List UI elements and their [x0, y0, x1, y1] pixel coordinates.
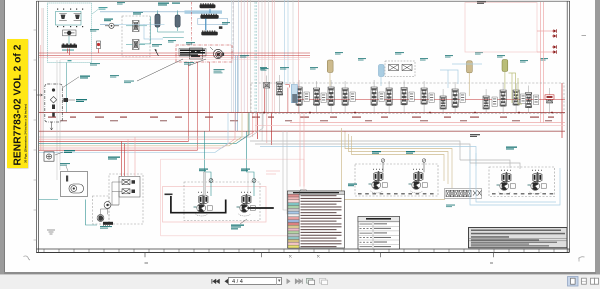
callout label L2: [117, 2, 125, 5]
sensor cylinder B3 (tan): [467, 61, 473, 96]
horn H1: [210, 47, 223, 59]
pale feeder wires to M1: [285, 0, 299, 113]
tan wire pair to fan box: [345, 132, 452, 189]
fan enclosure dashed box: [184, 182, 260, 221]
blue wire to right motors: [260, 147, 476, 167]
multicolour trunk bundle: [39, 128, 263, 152]
ground sym bottom-left: [47, 230, 55, 234]
connector P16: [526, 93, 532, 108]
label above capacitors: [158, 3, 180, 6]
connector P10: [421, 88, 427, 105]
red loop wires left-band: [265, 85, 290, 113]
grey feed right fan box: [460, 160, 520, 169]
band grey wire low: [250, 130, 565, 132]
switch S1 near band: [97, 41, 101, 49]
receptacle blocks in band: [304, 92, 539, 107]
callout label LD: [124, 81, 134, 84]
callout label L1: [90, 29, 99, 32]
callout label L5: [186, 42, 195, 45]
label above KS: [60, 163, 70, 171]
label above right fan box: [506, 147, 517, 150]
callout label L14: [358, 58, 366, 61]
wire colour legend table: [288, 191, 345, 248]
viewer toolbar: [0, 274, 600, 289]
callout label L12: [310, 67, 318, 70]
teal wire bottom-left: [39, 200, 97, 226]
light-blue bus bar: [185, 10, 223, 13]
fan enclosure outer box: [163, 187, 267, 223]
grey dash boundary x233: [232, 2, 234, 55]
label right of band: [470, 134, 480, 137]
relay K1: [59, 13, 67, 20]
wires in E5: [101, 182, 123, 214]
harness band dashed outline: [251, 83, 564, 114]
grey thick drop to FM1: [203, 172, 206, 196]
frame bottom x-marks: [289, 255, 320, 258]
pink riser wire (top-right): [537, 31, 552, 52]
callout label L17: [445, 55, 453, 58]
cab harness dashed box E5: [93, 174, 144, 224]
thick bus bar: [171, 196, 274, 213]
drawing frame right border: [567, 1, 569, 252]
connector P8: [386, 88, 392, 106]
next-page button (disabled): [287, 279, 290, 284]
svg-text:30 Pgs. (Dimension: 24 Inches: 30 Pgs. (Dimension: 24 Inches x 36 Inche…: [23, 104, 27, 163]
pin dots of E1: [57, 9, 83, 28]
callout label L18: [475, 52, 483, 55]
relay module dashed box E3: [385, 61, 415, 77]
svg-text:RENR7783-02 VOL 2 of 2: RENR7783-02 VOL 2 of 2: [13, 44, 24, 165]
viewer grey margin left: [0, 0, 5, 274]
page number combo box: [228, 277, 282, 286]
grommets above left fan box: [381, 159, 426, 173]
callout label L11: [110, 75, 119, 78]
connector P14: [500, 90, 506, 107]
terminal strip TS1: [62, 44, 78, 48]
connector P3: [296, 87, 302, 106]
light-blue supply wire run: [100, 12, 185, 24]
fan motor FM3: [369, 169, 388, 193]
callout label L20: [520, 60, 528, 63]
line definitions table: [358, 217, 400, 250]
callout label L19: [497, 55, 505, 58]
red drop wires from TS1: [68, 49, 70, 56]
last-page button (disabled): [295, 279, 302, 284]
callout label L21: [540, 58, 548, 61]
label under TS1: [62, 50, 74, 62]
callout label L7: [240, 55, 249, 58]
diode group D1-D4: [552, 29, 557, 54]
steel-blue dropper pair: [236, 55, 238, 131]
title block: [469, 228, 568, 248]
band long red wire: [39, 112, 565, 114]
connector P15: [513, 90, 519, 105]
pink feed to fan box: [266, 171, 280, 174]
grey wire to right motors: [250, 141, 470, 163]
connector P17: [547, 95, 553, 103]
connector P9: [401, 88, 407, 106]
valve V2 in E2: [133, 40, 140, 50]
breaker CB1: [155, 49, 159, 56]
band red wire upper: [291, 98, 565, 100]
callout label L4: [168, 40, 176, 43]
label above X1: [348, 184, 357, 187]
ground bar GB1: [103, 222, 114, 227]
inner box of E1: [56, 12, 82, 26]
connector wires in band: [267, 75, 550, 113]
band pink wire low1: [290, 122, 565, 124]
trunk risers: [228, 113, 263, 144]
capacitor C2: [175, 11, 180, 28]
stray dash right margin: [582, 35, 587, 36]
callout label L3: [152, 44, 162, 47]
callout label L10: [90, 63, 100, 66]
fuse block F1: [190, 48, 203, 59]
relay K2: [74, 13, 82, 20]
pink rectangle loop top-right: [465, 3, 537, 53]
label above E2: [133, 12, 143, 15]
olive wire loop: [509, 73, 523, 104]
key switch box KS: [61, 172, 88, 197]
label LINE X: [165, 194, 173, 196]
terminal strip TS3: [200, 14, 218, 19]
terminal strip TS4: [201, 31, 218, 36]
valve V1 in E2: [133, 21, 140, 32]
outer pink enclosure loop: [161, 159, 304, 236]
label above E5: [108, 157, 120, 160]
inline connector J1: [105, 23, 119, 28]
prev-view icon: [307, 278, 315, 284]
red junction dots: [263, 112, 553, 114]
red trunk wires: [39, 141, 198, 150]
dashed enclosure box E1 (top-left): [47, 3, 91, 63]
connector P6: [342, 88, 348, 106]
TS3 outline box: [198, 18, 228, 29]
fan motor FM5: [497, 170, 516, 194]
solenoid L1 inside E1: [63, 30, 77, 36]
terminal strip TS2: [200, 3, 216, 8]
tick row in left fan box: [358, 193, 434, 194]
light-blue branch wires: [114, 14, 207, 39]
right fan dashed box: [489, 167, 555, 197]
red riser to band: [98, 49, 100, 54]
sensor cylinder B1 (tan): [327, 60, 333, 86]
stray mark below frame right: [579, 257, 585, 262]
callout diagonal to EB: [137, 59, 183, 81]
teal dashed riser: [255, 2, 256, 113]
red risers into E5: [122, 141, 125, 176]
connector P1: [264, 83, 270, 89]
drawing frame bottom border: [37, 249, 570, 253]
valve V4 in E5: [122, 189, 135, 194]
grey riser through E4: [57, 60, 60, 180]
label above J1: [104, 19, 113, 22]
connector P11: [440, 96, 446, 109]
viewer grey margin right: [595, 0, 600, 274]
frame left zone marks: [34, 30, 37, 240]
callout label L15: [395, 52, 404, 55]
single-page layout button (active): [568, 277, 579, 287]
teal drop to FM2: [247, 132, 257, 197]
pink feed wire C: [39, 56, 310, 58]
tiny label top-right: [477, 1, 486, 4]
diamond indicator in E4: [50, 88, 56, 116]
labels above fan box: [199, 169, 250, 172]
red feed wire B: [39, 54, 310, 56]
fan motor FM6: [528, 170, 547, 194]
pink risers right-bottom: [300, 113, 304, 187]
dark red trunk wire: [39, 130, 565, 132]
bundle continuation below band: [248, 113, 272, 146]
next-view icon (disabled): [320, 278, 328, 284]
junction blocks right of fan box: [300, 190, 306, 201]
label below X1 strip: [446, 205, 455, 208]
tick row in right fan box: [492, 193, 553, 194]
first-page button: [212, 279, 220, 284]
callout label LB: [214, 69, 225, 73]
gauge G1 in EB: [216, 52, 225, 58]
stray mark below frame left: [24, 256, 31, 260]
facing layout button: [591, 278, 599, 284]
callout label L13: [335, 52, 343, 55]
sub box in E5: [119, 177, 140, 198]
bus wire between strips: [206, 9, 210, 30]
module M1 (light blue): [291, 85, 297, 103]
red dash-dot enclosure EB: [176, 45, 232, 62]
relay bank RB1 in EB: [179, 49, 206, 57]
band pink wire low2: [255, 125, 565, 127]
label text of E1: [92, 7, 108, 14]
labels above left fan box: [372, 151, 415, 154]
callout label L9: [280, 67, 289, 70]
drawing frame top border: [37, 0, 570, 2]
teal wire from E1 to band: [66, 63, 68, 113]
fan motor FM1: [194, 192, 213, 216]
connector P12: [452, 89, 458, 108]
red dash boundary x192: [191, 2, 193, 45]
sensor cylinder B2 (blue): [379, 65, 385, 87]
light blue wire to band: [440, 64, 482, 88]
yellow sticky note: [7, 39, 28, 168]
pink risers into E5: [128, 137, 135, 176]
wire E1 to terminal strip: [68, 36, 70, 44]
callout label L6: [222, 22, 230, 25]
callout label LA: [184, 62, 194, 65]
connector stub E4: [62, 98, 68, 102]
label below fan box: [231, 219, 247, 229]
wires inside E2: [126, 26, 147, 45]
arrow into E4: [37, 94, 43, 96]
capacitor C1: [155, 11, 160, 28]
pink riser pair right: [541, 2, 544, 123]
callout label LC: [261, 68, 269, 71]
red component R1 above band: [545, 95, 554, 100]
frame zone tick marks: [145, 253, 494, 258]
vertical harness bundle: [232, 0, 275, 113]
teal drop to FM1: [205, 132, 214, 197]
callout labels E4: [62, 76, 90, 103]
dash-dot panel E4: [45, 84, 63, 122]
dashed enclosure box E2: [122, 16, 150, 57]
fan motor FM4: [409, 169, 428, 193]
label under E5: [100, 226, 112, 229]
plus-terminal box T1: [44, 152, 54, 161]
band bottom tiny labels: [48, 117, 554, 118]
connector P2: [277, 82, 283, 95]
tan wrap around fan box: [342, 128, 446, 200]
teal cap wires: [140, 17, 184, 44]
continuous layout button: [582, 278, 587, 284]
axle connector strip X1: [445, 189, 482, 199]
pink feed wire D: [60, 59, 300, 61]
valve V3 in E5: [122, 180, 135, 185]
connector P4: [314, 88, 320, 106]
grey risers mid-bottom: [283, 131, 295, 214]
left margin riser wires: [41, 8, 44, 150]
callout label L16: [420, 58, 428, 61]
motor M0 in E5: [97, 215, 104, 222]
sensor cylinder B4 (olive): [502, 60, 508, 90]
light blue wrap right fan box: [470, 150, 560, 205]
page bottom shadow: [4, 272, 596, 275]
red dropper wires: [189, 62, 210, 150]
fan motor FM2: [237, 192, 256, 216]
drawing frame left border: [37, 1, 39, 253]
band bottom tiny labels row2: [60, 120, 552, 121]
down arrow below E4: [50, 122, 53, 130]
red riser right: [561, 83, 563, 138]
connector P7: [371, 87, 377, 106]
callout diagonal to EB 2: [188, 59, 206, 66]
left fan dashed box: [355, 164, 438, 196]
connector P13: [483, 96, 489, 109]
relay K3 in E5: [104, 202, 119, 209]
connector P5: [328, 87, 334, 106]
frame ruler division ticks: [44, 249, 569, 253]
tiny tick below frame: [145, 263, 494, 264]
red feed wire A: [39, 52, 310, 54]
callout label L8: [260, 67, 267, 70]
label near T1: [55, 150, 75, 155]
prev-page button: [225, 279, 228, 284]
